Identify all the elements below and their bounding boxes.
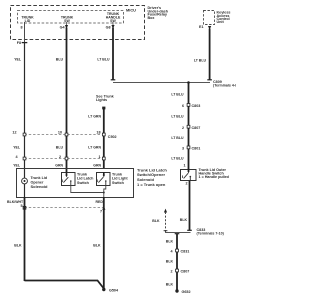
svg-text:E1: E1 (199, 25, 204, 29)
connector square from other circuit (102, 107, 105, 110)
svg-text:C801: C801 (192, 147, 201, 151)
switch S2 output terminal (105, 181, 107, 186)
connector T-bar at bottom of G8 wire (111, 79, 116, 81)
connector T-bar below C833 (175, 233, 180, 235)
solenoid coil symbol (22, 178, 28, 184)
svg-text:G504: G504 (109, 289, 119, 293)
wire 1 to ground (24, 197, 26, 281)
SECTION: bottom grounds (7, 197, 119, 293)
svg-text:1: 1 (98, 155, 100, 159)
MICU control unit box (18, 11, 124, 24)
svg-text:GRN: GRN (55, 163, 63, 167)
svg-text:10: 10 (58, 131, 62, 135)
svg-text:1 = Handle pulled: 1 = Handle pulled (199, 175, 230, 179)
svg-text:3: 3 (182, 147, 184, 151)
svg-text:BLK: BLK (180, 218, 188, 222)
svg-text:LT BLU: LT BLU (194, 59, 207, 63)
svg-text:SW: SW (64, 19, 70, 23)
svg-text:1: 1 (183, 164, 185, 168)
svg-text:C807: C807 (192, 126, 201, 130)
svg-text:Lights: Lights (96, 98, 107, 102)
wire bottom run to ground point (25, 281, 104, 289)
svg-text:Solenoid: Solenoid (31, 184, 48, 189)
ground G504 (102, 288, 105, 291)
svg-text:LT BLU: LT BLU (171, 93, 184, 97)
svg-text:(Terminals 4-8): (Terminals 4-8) (213, 84, 236, 88)
svg-text:Trunk Lid: Trunk Lid (31, 176, 48, 180)
svg-text:LT BLU: LT BLU (171, 115, 184, 119)
svg-text:G4: G4 (60, 26, 66, 30)
svg-text:BLU: BLU (56, 58, 64, 62)
svg-text:(Terminals 7-10): (Terminals 7-10) (197, 232, 225, 236)
svg-text:8: 8 (20, 26, 22, 30)
junction connector C833 bus (165, 232, 191, 234)
wire from S1 to junction (71, 186, 104, 193)
svg-text:5: 5 (20, 204, 22, 208)
wire S3 to C833 (189, 181, 191, 231)
svg-text:C831: C831 (181, 250, 190, 254)
wire pin G8 with output arrowhead (112, 22, 114, 26)
svg-text:1 = Trunk open: 1 = Trunk open (137, 182, 166, 187)
svg-text:LT BLU: LT BLU (171, 136, 184, 140)
wire 1 (YEL) from F8 down to latch box (24, 43, 26, 169)
svg-text:BLU: BLU (56, 146, 64, 150)
switch S3 contact arrowhead (188, 169, 190, 172)
svg-text:4: 4 (15, 155, 18, 159)
svg-text:Trunk: Trunk (112, 172, 123, 176)
SECTION: right branch (152, 81, 229, 294)
svg-text:C502: C502 (108, 135, 117, 139)
svg-text:F8: F8 (17, 41, 21, 45)
wire through solenoid (24, 169, 26, 178)
svg-text:BLK: BLK (166, 240, 174, 244)
svg-text:BLK: BLK (166, 260, 174, 264)
wire keyless output with arrowhead (208, 26, 211, 30)
svg-text:2: 2 (170, 270, 172, 274)
svg-text:G652: G652 (182, 290, 191, 294)
svg-text:LT GRN: LT GRN (88, 146, 101, 150)
svg-text:C803: C803 (192, 104, 201, 108)
switch S3 output terminal (189, 176, 191, 180)
SECTION: top fuse box (11, 6, 169, 46)
SECTION: keyless unit (113, 11, 239, 88)
svg-text:4: 4 (170, 250, 173, 254)
junction dot on C809 bus (187, 81, 190, 84)
svg-text:2: 2 (59, 155, 61, 159)
svg-text:LID: LID (25, 19, 31, 23)
svg-text:LT BLU: LT BLU (97, 58, 110, 62)
switch S2 contact arrowhead (103, 172, 105, 175)
connector T-bar at C833 (187, 229, 192, 231)
svg-text:12: 12 (12, 131, 16, 135)
svg-text:18: 18 (96, 131, 100, 135)
svg-text:6: 6 (182, 104, 184, 108)
svg-text:LT GRN: LT GRN (88, 115, 101, 119)
svg-text:BLK: BLK (14, 243, 22, 247)
in-line connector (trunk lid) dashed line pins 5/7 (25, 207, 105, 209)
svg-text:G8: G8 (106, 26, 111, 30)
wire 3 to ground (103, 197, 105, 289)
driver's under-dash fuse/relay box (11, 6, 145, 40)
trunk lid outer handle switch S3 box (181, 170, 197, 181)
svg-text:BLK: BLK (93, 243, 101, 247)
connector T-bar at C809 (207, 79, 212, 81)
svg-text:BLK: BLK (152, 219, 160, 223)
keyless access control unit box (204, 11, 215, 25)
dashed branch to other circuit (up arrow) (164, 209, 167, 213)
switch S1 contact arrowhead (66, 172, 68, 175)
svg-text:RED: RED (96, 200, 104, 204)
trunk lid latch assembly box (17, 169, 134, 198)
junction connector C809 bus (113, 82, 210, 84)
SECTION: middle wires (12, 40, 116, 172)
svg-text:YEL: YEL (13, 146, 21, 150)
wire C833 to ground (176, 234, 178, 291)
in-line connector (latch assembly) dashed line (25, 158, 105, 160)
SECTION: latch assembly box (17, 167, 168, 197)
svg-text:BLK: BLK (166, 282, 174, 286)
wire S2 to box bottom (104, 186, 106, 198)
svg-text:2: 2 (185, 182, 187, 186)
trunk lid light switch S2 box (97, 173, 111, 186)
trunk lid latch switch S1 box (62, 173, 76, 186)
svg-text:Switch: Switch (112, 181, 125, 185)
switch S1 blade (63, 177, 68, 182)
wire C809 to handle switch (188, 83, 190, 170)
wire pin G4 with output arrowhead (66, 22, 68, 26)
svg-text:Lid Latch: Lid Latch (77, 177, 94, 181)
switch S2 blade (98, 177, 103, 182)
svg-text:Unit: Unit (217, 20, 225, 24)
svg-text:YEL: YEL (13, 163, 21, 167)
svg-text:LT BLU: LT BLU (171, 157, 184, 161)
in-line connector C502 dashed line (25, 134, 105, 136)
svg-text:Lid Light: Lid Light (112, 177, 128, 181)
svg-text:GRN: GRN (93, 163, 101, 167)
wire 3 (LT BLU) from G8 down to C809 corner (112, 40, 114, 80)
svg-text:C807: C807 (181, 270, 190, 274)
svg-text:YEL: YEL (14, 58, 22, 62)
ground G652 (175, 289, 178, 292)
svg-text:2: 2 (182, 126, 184, 130)
junction dot S1/S2 (103, 192, 105, 194)
svg-text:Trunk: Trunk (77, 172, 88, 176)
wire pin 8 inside box (thin) (24, 22, 26, 42)
wire 2 (BLU) from G4 down to latch switch (66, 40, 68, 172)
connector F8 T-bar (22, 42, 28, 44)
svg-text:Box: Box (148, 16, 156, 20)
wire trunk light (LT GRN) down into latch box (103, 109, 105, 169)
svg-text:Switch: Switch (77, 181, 90, 185)
switch S3 blade (184, 173, 189, 178)
svg-text:MICU: MICU (126, 7, 136, 12)
svg-text:7: 7 (100, 210, 102, 214)
switch S1 output terminal (70, 181, 72, 186)
